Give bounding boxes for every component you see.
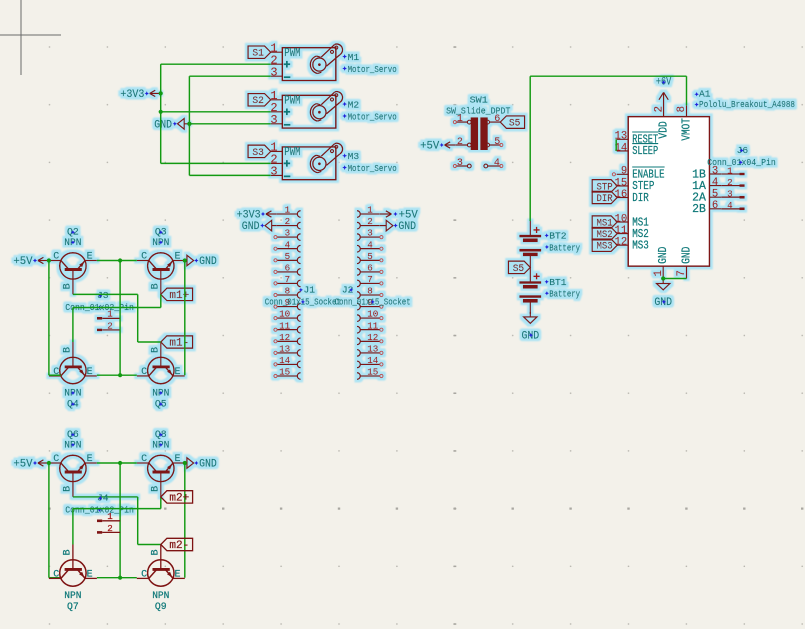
svg-text:Pololu_Breakout_A4988: Pololu_Breakout_A4988 (699, 99, 795, 110)
svg-text:9: 9 (621, 166, 627, 178)
svg-text:C: C (53, 454, 59, 465)
svg-text:GND: GND (199, 256, 217, 268)
svg-text:E: E (87, 252, 93, 263)
svg-text:J1: J1 (304, 285, 316, 296)
svg-text:GND: GND (680, 246, 693, 263)
svg-text:1: 1 (285, 205, 291, 216)
svg-text:4: 4 (367, 239, 373, 250)
svg-text:B: B (151, 549, 162, 555)
svg-text:B: B (63, 283, 74, 289)
svg-text:14: 14 (279, 355, 291, 366)
svg-text:S3: S3 (252, 148, 264, 159)
svg-text:Q9: Q9 (155, 601, 167, 612)
svg-text:GND: GND (242, 221, 260, 233)
svg-text:GND: GND (154, 119, 172, 131)
svg-text:E: E (174, 570, 180, 581)
svg-text:6: 6 (285, 263, 291, 274)
svg-text:PWM: PWM (284, 145, 300, 159)
svg-text:C: C (141, 252, 147, 263)
svg-text:3: 3 (270, 65, 277, 79)
svg-text:VDD: VDD (658, 121, 671, 138)
svg-text:SW_Slide_DPDT: SW_Slide_DPDT (446, 106, 511, 117)
svg-text:B: B (63, 549, 74, 555)
svg-text:12: 12 (279, 332, 290, 343)
svg-text:6: 6 (712, 200, 718, 212)
svg-text:Motor_Servo: Motor_Servo (348, 111, 397, 122)
svg-text:Battery: Battery (549, 242, 580, 253)
svg-text:1: 1 (107, 511, 113, 522)
svg-text:3: 3 (270, 113, 277, 127)
svg-text:C: C (141, 454, 147, 465)
svg-text:m1-: m1- (169, 337, 189, 349)
svg-text:BT1: BT1 (549, 277, 567, 288)
svg-text:C: C (53, 570, 59, 581)
svg-text:C: C (53, 367, 59, 378)
svg-text:C: C (141, 570, 147, 581)
svg-text:DIR: DIR (597, 194, 613, 205)
svg-text:8: 8 (367, 286, 373, 297)
svg-text:C: C (141, 367, 147, 378)
svg-text:+5V: +5V (13, 256, 33, 268)
svg-text:M2: M2 (348, 100, 360, 111)
svg-text:8: 8 (285, 286, 291, 297)
svg-text:Motor_Servo: Motor_Servo (348, 64, 397, 75)
svg-text:VMOT: VMOT (680, 118, 693, 140)
svg-text:14: 14 (367, 355, 379, 366)
svg-text:NPN: NPN (152, 590, 169, 601)
svg-text:+5V: +5V (13, 458, 33, 470)
svg-text:SW1: SW1 (470, 94, 488, 105)
svg-text:5: 5 (285, 251, 291, 262)
svg-text:7: 7 (367, 274, 373, 285)
svg-text:3: 3 (367, 228, 373, 239)
svg-text:GND: GND (199, 459, 217, 471)
svg-text:+3V3: +3V3 (237, 209, 261, 221)
svg-text:MS3: MS3 (597, 242, 613, 253)
svg-text:Battery: Battery (549, 289, 580, 300)
svg-text:B: B (151, 283, 162, 289)
svg-text:15: 15 (367, 367, 378, 378)
svg-text:2: 2 (367, 216, 373, 227)
svg-text:GND: GND (657, 246, 670, 263)
svg-text:MS3: MS3 (632, 240, 649, 253)
svg-text:M3: M3 (348, 151, 360, 162)
svg-text:4: 4 (494, 158, 500, 169)
svg-text:DIR: DIR (632, 192, 649, 205)
svg-text:m2-: m2- (169, 540, 189, 552)
svg-text:2: 2 (727, 177, 733, 188)
svg-text:2: 2 (107, 523, 113, 534)
svg-text:10: 10 (279, 309, 290, 320)
svg-text:5: 5 (712, 189, 718, 201)
svg-text:E: E (174, 454, 180, 465)
svg-text:13: 13 (367, 344, 378, 355)
svg-text:B: B (63, 347, 74, 353)
svg-text:S2: S2 (252, 96, 264, 107)
svg-text:4: 4 (727, 200, 733, 211)
svg-text:5: 5 (367, 251, 373, 262)
svg-text:10: 10 (367, 309, 378, 320)
svg-text:PWM: PWM (284, 93, 300, 107)
svg-text:E: E (87, 454, 93, 465)
svg-text:S5: S5 (513, 264, 525, 275)
svg-text:6: 6 (494, 114, 500, 125)
svg-text:12: 12 (367, 332, 378, 343)
svg-text:E: E (174, 252, 180, 263)
svg-text:B: B (151, 347, 162, 353)
svg-text:M1: M1 (348, 52, 360, 63)
svg-text:GND: GND (398, 221, 416, 233)
svg-text:1: 1 (653, 270, 665, 276)
svg-text:1: 1 (457, 114, 463, 125)
svg-text:3: 3 (285, 228, 291, 239)
svg-text:PWM: PWM (284, 46, 300, 60)
svg-text:+3V3: +3V3 (120, 89, 144, 101)
svg-text:E: E (174, 367, 180, 378)
svg-text:11: 11 (279, 320, 291, 331)
svg-text:A1: A1 (699, 89, 711, 100)
svg-text:+5V: +5V (420, 140, 440, 152)
svg-text:1: 1 (367, 205, 373, 216)
svg-text:3: 3 (270, 165, 277, 179)
svg-text:SLEEP: SLEEP (632, 145, 658, 158)
svg-text:S5: S5 (509, 119, 521, 130)
svg-text:11: 11 (367, 320, 379, 331)
svg-text:m1+: m1+ (169, 290, 189, 302)
svg-text:3: 3 (457, 158, 463, 169)
svg-text:2: 2 (457, 137, 463, 148)
svg-text:BT2: BT2 (549, 230, 567, 241)
svg-text:B: B (63, 486, 74, 492)
svg-text:4: 4 (285, 239, 291, 250)
svg-text:2: 2 (285, 216, 291, 227)
svg-text:7: 7 (285, 274, 291, 285)
svg-text:2: 2 (107, 320, 113, 331)
svg-text:Motor_Servo: Motor_Servo (348, 163, 397, 174)
svg-text:Q7: Q7 (67, 601, 79, 612)
svg-text:E: E (87, 367, 93, 378)
svg-text:S1: S1 (252, 49, 264, 60)
svg-text:5: 5 (494, 137, 500, 148)
svg-text:m2+: m2+ (169, 492, 189, 504)
svg-text:7: 7 (676, 270, 688, 276)
svg-text:E: E (87, 570, 93, 581)
svg-text:4: 4 (712, 177, 718, 189)
svg-text:6: 6 (367, 263, 373, 274)
svg-text:15: 15 (279, 367, 290, 378)
svg-text:B: B (151, 486, 162, 492)
svg-text:3: 3 (727, 189, 733, 200)
svg-text:13: 13 (279, 344, 290, 355)
svg-text:NPN: NPN (64, 590, 81, 601)
svg-text:C: C (53, 252, 59, 263)
svg-text:2B: 2B (692, 203, 706, 216)
svg-text:+5V: +5V (399, 209, 419, 221)
